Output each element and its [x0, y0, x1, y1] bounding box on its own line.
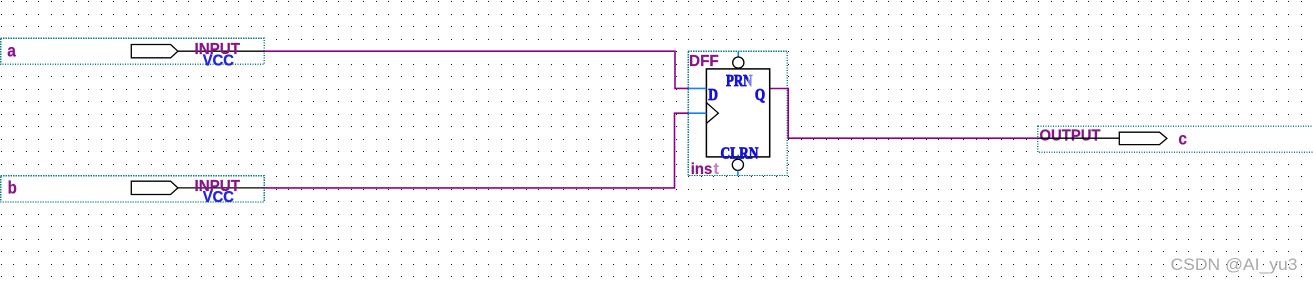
wire DFF Q to output c	[770, 89, 1038, 139]
DFF CLRN bubble	[732, 159, 743, 170]
svg-text:VCC: VCC	[203, 52, 234, 69]
svg-text:CSDN @AI_yu3: CSDN @AI_yu3	[1171, 255, 1298, 274]
svg-text:b: b	[8, 177, 17, 197]
svg-text:D: D	[708, 85, 718, 104]
DFF CLRN stub	[737, 170, 739, 175]
PRN label fade artifact	[748, 74, 753, 88]
input pin b arrow symbol	[131, 181, 178, 194]
input pin a arrow symbol	[131, 45, 178, 58]
svg-text:DFF: DFF	[689, 53, 719, 70]
input pin b selection box	[1, 176, 265, 202]
wire a to DFF D input	[264, 51, 688, 88]
input pin b symbol background	[0, 174, 266, 203]
input pin b lead line	[178, 187, 264, 189]
input pin a selection box	[1, 38, 265, 64]
output pin c arrow symbol	[1119, 132, 1167, 144]
output pin c symbol background	[1037, 125, 1313, 153]
input pin a lead line	[178, 50, 264, 52]
svg-text:t: t	[714, 161, 720, 178]
DFF U1 symbol background	[687, 50, 788, 176]
DFF body U1	[706, 69, 769, 157]
svg-text:c: c	[1178, 128, 1187, 148]
output pin c lead line	[1038, 137, 1119, 139]
DFF PRN bubble	[733, 57, 744, 68]
wire b to DFF clock input	[264, 113, 688, 188]
DFF U1 selection box	[688, 51, 787, 175]
DFF clock triangle	[706, 103, 718, 124]
DFF D input stub	[689, 87, 707, 89]
svg-text:ins: ins	[691, 161, 713, 178]
svg-text:Q: Q	[755, 85, 765, 104]
svg-text:OUTPUT: OUTPUT	[1040, 128, 1101, 145]
svg-text:a: a	[7, 41, 16, 61]
DFF clock input stub	[689, 112, 707, 114]
svg-text:VCC: VCC	[203, 189, 234, 206]
input pin a symbol background	[0, 37, 266, 66]
output pin c selection box	[1038, 126, 1313, 152]
DFF PRN stub	[737, 51, 739, 57]
